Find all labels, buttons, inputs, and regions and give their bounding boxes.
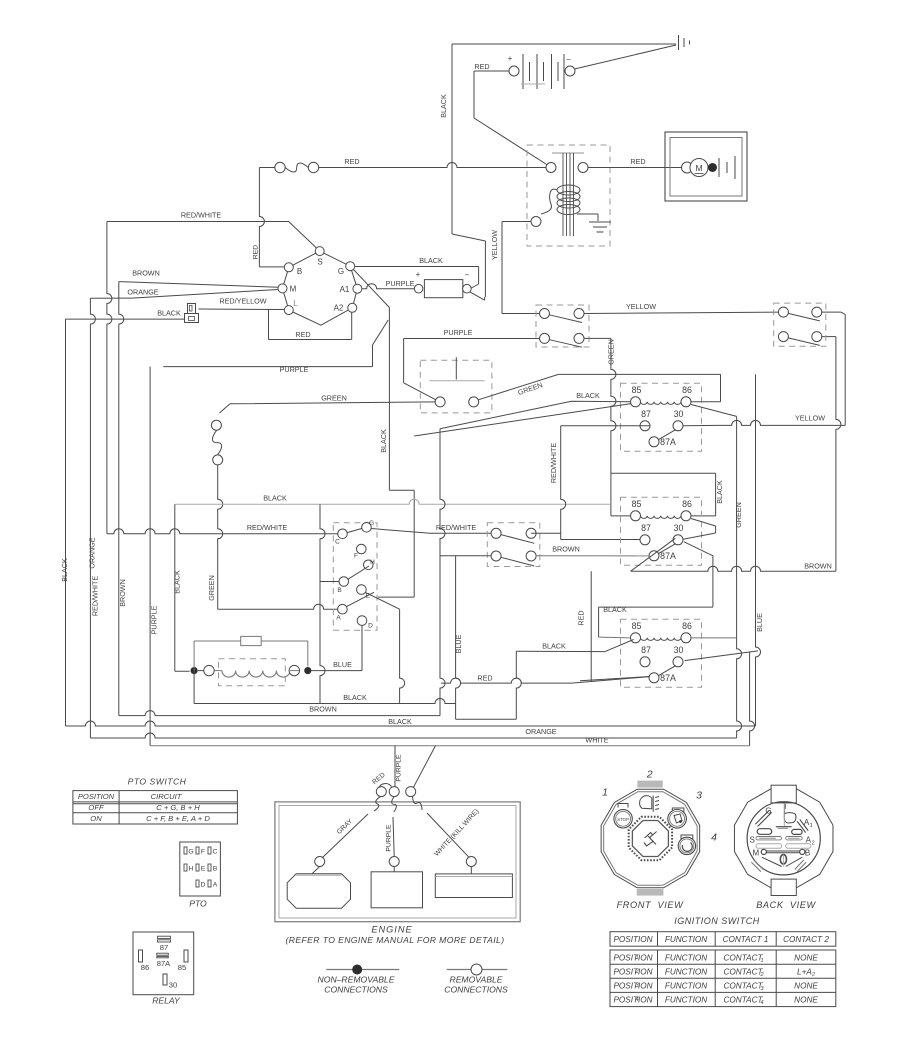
svg-text:PURPLE: PURPLE (396, 754, 403, 782)
svg-text:A2: A2 (334, 304, 344, 313)
svg-text:REMOVABLE: REMOVABLE (449, 975, 502, 985)
svg-text:BACK VIEW: BACK VIEW (756, 900, 816, 910)
svg-text:BLACK: BLACK (439, 94, 448, 118)
svg-text:L: L (293, 299, 298, 308)
svg-text:RED/WHITE: RED/WHITE (181, 211, 222, 220)
svg-text:30: 30 (169, 981, 177, 990)
svg-text:PURPLE: PURPLE (150, 605, 159, 634)
svg-text:GREEN: GREEN (321, 394, 347, 403)
svg-text:YELLOW: YELLOW (490, 230, 499, 260)
svg-text:F: F (354, 553, 358, 560)
svg-text:G: G (188, 849, 193, 856)
svg-text:I: I (785, 804, 787, 811)
svg-text:BLUE: BLUE (755, 613, 764, 632)
svg-text:BROWN: BROWN (552, 545, 580, 554)
svg-text:RED/WHITE: RED/WHITE (549, 443, 558, 484)
svg-text:S: S (750, 836, 755, 845)
svg-text:4: 4 (760, 1000, 763, 1006)
svg-text:(REFER TO ENGINE MANUAL FOR MO: (REFER TO ENGINE MANUAL FOR MORE DETAIL) (286, 935, 505, 945)
svg-text:BROWN: BROWN (118, 579, 127, 607)
svg-text:BLACK: BLACK (542, 642, 566, 651)
svg-text:POSITION: POSITION (613, 982, 652, 991)
svg-text:NONE: NONE (794, 982, 818, 991)
svg-text:86: 86 (141, 963, 149, 972)
svg-text:1: 1 (602, 787, 608, 799)
svg-text:BLACK: BLACK (715, 480, 724, 504)
svg-text:C + G, B + H: C + G, B + H (156, 803, 200, 812)
svg-text:−: − (465, 271, 470, 280)
svg-text:A1: A1 (340, 285, 350, 294)
svg-text:BLUE: BLUE (333, 660, 352, 669)
svg-text:2: 2 (812, 841, 815, 847)
svg-text:1: 1 (760, 958, 763, 964)
svg-text:FUNCTION: FUNCTION (665, 935, 707, 944)
svg-text:BLUE: BLUE (454, 634, 463, 653)
svg-text:E: E (201, 866, 206, 873)
svg-text:GREEN: GREEN (607, 339, 616, 365)
svg-text:OFF: OFF (88, 803, 104, 812)
svg-text:ORANGE: ORANGE (525, 727, 556, 736)
svg-text:RED: RED (344, 157, 359, 166)
svg-text:RED: RED (630, 157, 645, 166)
svg-text:87A: 87A (660, 673, 676, 683)
svg-text:BLACK: BLACK (388, 717, 412, 726)
svg-text:87: 87 (641, 409, 651, 419)
svg-text:S: S (317, 258, 322, 267)
svg-text:M: M (290, 285, 297, 294)
svg-text:POSITION: POSITION (78, 792, 115, 801)
svg-text:PURPLE: PURPLE (444, 328, 473, 337)
svg-text:YELLOW: YELLOW (795, 414, 825, 423)
svg-text:CONTACT: CONTACT (724, 967, 764, 976)
svg-text:ENGINE: ENGINE (371, 925, 412, 935)
svg-text:30: 30 (674, 645, 684, 655)
svg-text:POSITION: POSITION (613, 996, 652, 1005)
svg-text:D: D (201, 882, 206, 889)
svg-text:87: 87 (160, 943, 168, 952)
svg-text:C + F, B + E, A + D: C + F, B + E, A + D (146, 814, 210, 823)
svg-text:BROWN: BROWN (309, 705, 337, 714)
svg-text:PURPLE: PURPLE (386, 824, 393, 852)
svg-text:F: F (201, 849, 205, 856)
svg-text:30: 30 (674, 409, 684, 419)
svg-text:NONE: NONE (794, 996, 818, 1005)
svg-text:85: 85 (632, 621, 642, 631)
svg-text:87: 87 (641, 645, 651, 655)
svg-text:ORANGE: ORANGE (127, 288, 158, 297)
svg-text:BLACK: BLACK (60, 558, 69, 582)
svg-text:2: 2 (646, 769, 653, 781)
svg-text:CONTACT 1: CONTACT 1 (723, 935, 769, 944)
svg-text:4: 4 (711, 832, 717, 844)
svg-text:G: G (765, 807, 771, 816)
svg-text:87A: 87A (660, 551, 676, 561)
svg-text:FUNCTION: FUNCTION (665, 996, 707, 1005)
svg-text:PTO SWITCH: PTO SWITCH (128, 777, 187, 787)
svg-text:CONTACT: CONTACT (724, 953, 764, 962)
svg-text:87: 87 (641, 523, 651, 533)
svg-text:POSITION: POSITION (613, 967, 652, 976)
svg-text:B: B (337, 587, 341, 594)
svg-text:B: B (805, 849, 810, 858)
svg-text:NONE: NONE (794, 953, 818, 962)
svg-text:B: B (297, 267, 302, 276)
svg-text:POSITION: POSITION (613, 953, 652, 962)
svg-text:BLACK: BLACK (603, 605, 627, 614)
svg-text:RED: RED (477, 674, 492, 683)
svg-text:86: 86 (682, 385, 692, 395)
svg-text:BLACK: BLACK (343, 693, 367, 702)
svg-text:PURPLE: PURPLE (386, 279, 415, 288)
svg-text:WHITE: WHITE (585, 736, 608, 745)
svg-text:A: A (213, 882, 218, 889)
svg-text:BLACK: BLACK (379, 429, 388, 453)
svg-text:RED/YELLOW: RED/YELLOW (219, 297, 266, 306)
svg-text:PTO: PTO (189, 899, 207, 909)
svg-text:85: 85 (178, 963, 186, 972)
svg-text:BLACK: BLACK (157, 309, 181, 318)
svg-text:+: + (508, 54, 513, 63)
svg-text:IGNITION SWITCH: IGNITION SWITCH (674, 916, 760, 926)
svg-text:CONNECTIONS: CONNECTIONS (324, 985, 388, 995)
svg-text:M: M (752, 849, 759, 858)
svg-text:CONTACT: CONTACT (724, 996, 764, 1005)
svg-text:BLACK: BLACK (576, 391, 600, 400)
svg-text:RED: RED (295, 330, 310, 339)
svg-text:C: C (213, 849, 218, 856)
svg-text:D: D (368, 623, 373, 630)
svg-text:POSITION: POSITION (613, 935, 652, 944)
svg-text:+: + (416, 270, 421, 279)
svg-text:FUNCTION: FUNCTION (665, 982, 707, 991)
svg-text:L+A₂: L+A₂ (797, 967, 816, 976)
svg-text:RED/WHITE: RED/WHITE (436, 523, 477, 532)
svg-text:3: 3 (696, 790, 702, 802)
svg-text:STOP: STOP (617, 817, 629, 822)
svg-text:G: G (369, 520, 374, 527)
svg-text:RELAY: RELAY (152, 996, 181, 1006)
svg-text:2: 2 (634, 969, 639, 975)
svg-text:YELLOW: YELLOW (626, 302, 656, 311)
svg-text:FRONT VIEW: FRONT VIEW (617, 900, 685, 910)
svg-text:RED/WHITE: RED/WHITE (91, 576, 100, 617)
svg-text:−: − (566, 55, 571, 64)
svg-text:BLACK: BLACK (172, 570, 181, 594)
svg-text:2: 2 (759, 972, 763, 978)
svg-text:1: 1 (810, 823, 813, 829)
svg-text:ON: ON (90, 814, 102, 823)
svg-text:CONTACT: CONTACT (724, 982, 764, 991)
svg-text:CONNECTIONS: CONNECTIONS (444, 985, 508, 995)
svg-text:PURPLE: PURPLE (280, 365, 309, 374)
svg-text:CIRCUIT: CIRCUIT (151, 792, 183, 801)
svg-text:B: B (213, 866, 218, 873)
svg-text:NON–REMOVABLE: NON–REMOVABLE (318, 975, 395, 985)
svg-text:BLACK: BLACK (263, 494, 287, 503)
svg-text:GREEN: GREEN (207, 575, 216, 601)
svg-text:87A: 87A (157, 959, 171, 968)
svg-text:FUNCTION: FUNCTION (665, 953, 707, 962)
svg-text:RED: RED (577, 610, 586, 625)
svg-text:1: 1 (635, 955, 638, 961)
svg-text:86: 86 (682, 621, 692, 631)
svg-text:86: 86 (682, 499, 692, 509)
svg-text:FUNCTION: FUNCTION (665, 967, 707, 976)
svg-text:H: H (189, 866, 194, 873)
svg-text:BROWN: BROWN (804, 562, 832, 571)
svg-text:RED/WHITE: RED/WHITE (247, 523, 288, 532)
svg-text:85: 85 (632, 499, 642, 509)
svg-text:C: C (335, 539, 340, 546)
svg-text:M: M (695, 163, 702, 173)
svg-text:BLACK: BLACK (419, 256, 443, 265)
svg-text:30: 30 (674, 523, 684, 533)
svg-text:CONTACT 2: CONTACT 2 (783, 935, 829, 944)
svg-text:85: 85 (632, 385, 642, 395)
svg-text:BROWN: BROWN (132, 269, 160, 278)
svg-text:87A: 87A (660, 437, 676, 447)
svg-text:G: G (338, 267, 344, 276)
svg-text:RED: RED (474, 62, 489, 71)
svg-text:GREEN: GREEN (734, 502, 743, 528)
svg-text:H: H (370, 559, 375, 566)
svg-text:ORANGE: ORANGE (88, 537, 97, 568)
svg-text:A: A (336, 615, 341, 622)
svg-text:RED: RED (253, 245, 260, 259)
